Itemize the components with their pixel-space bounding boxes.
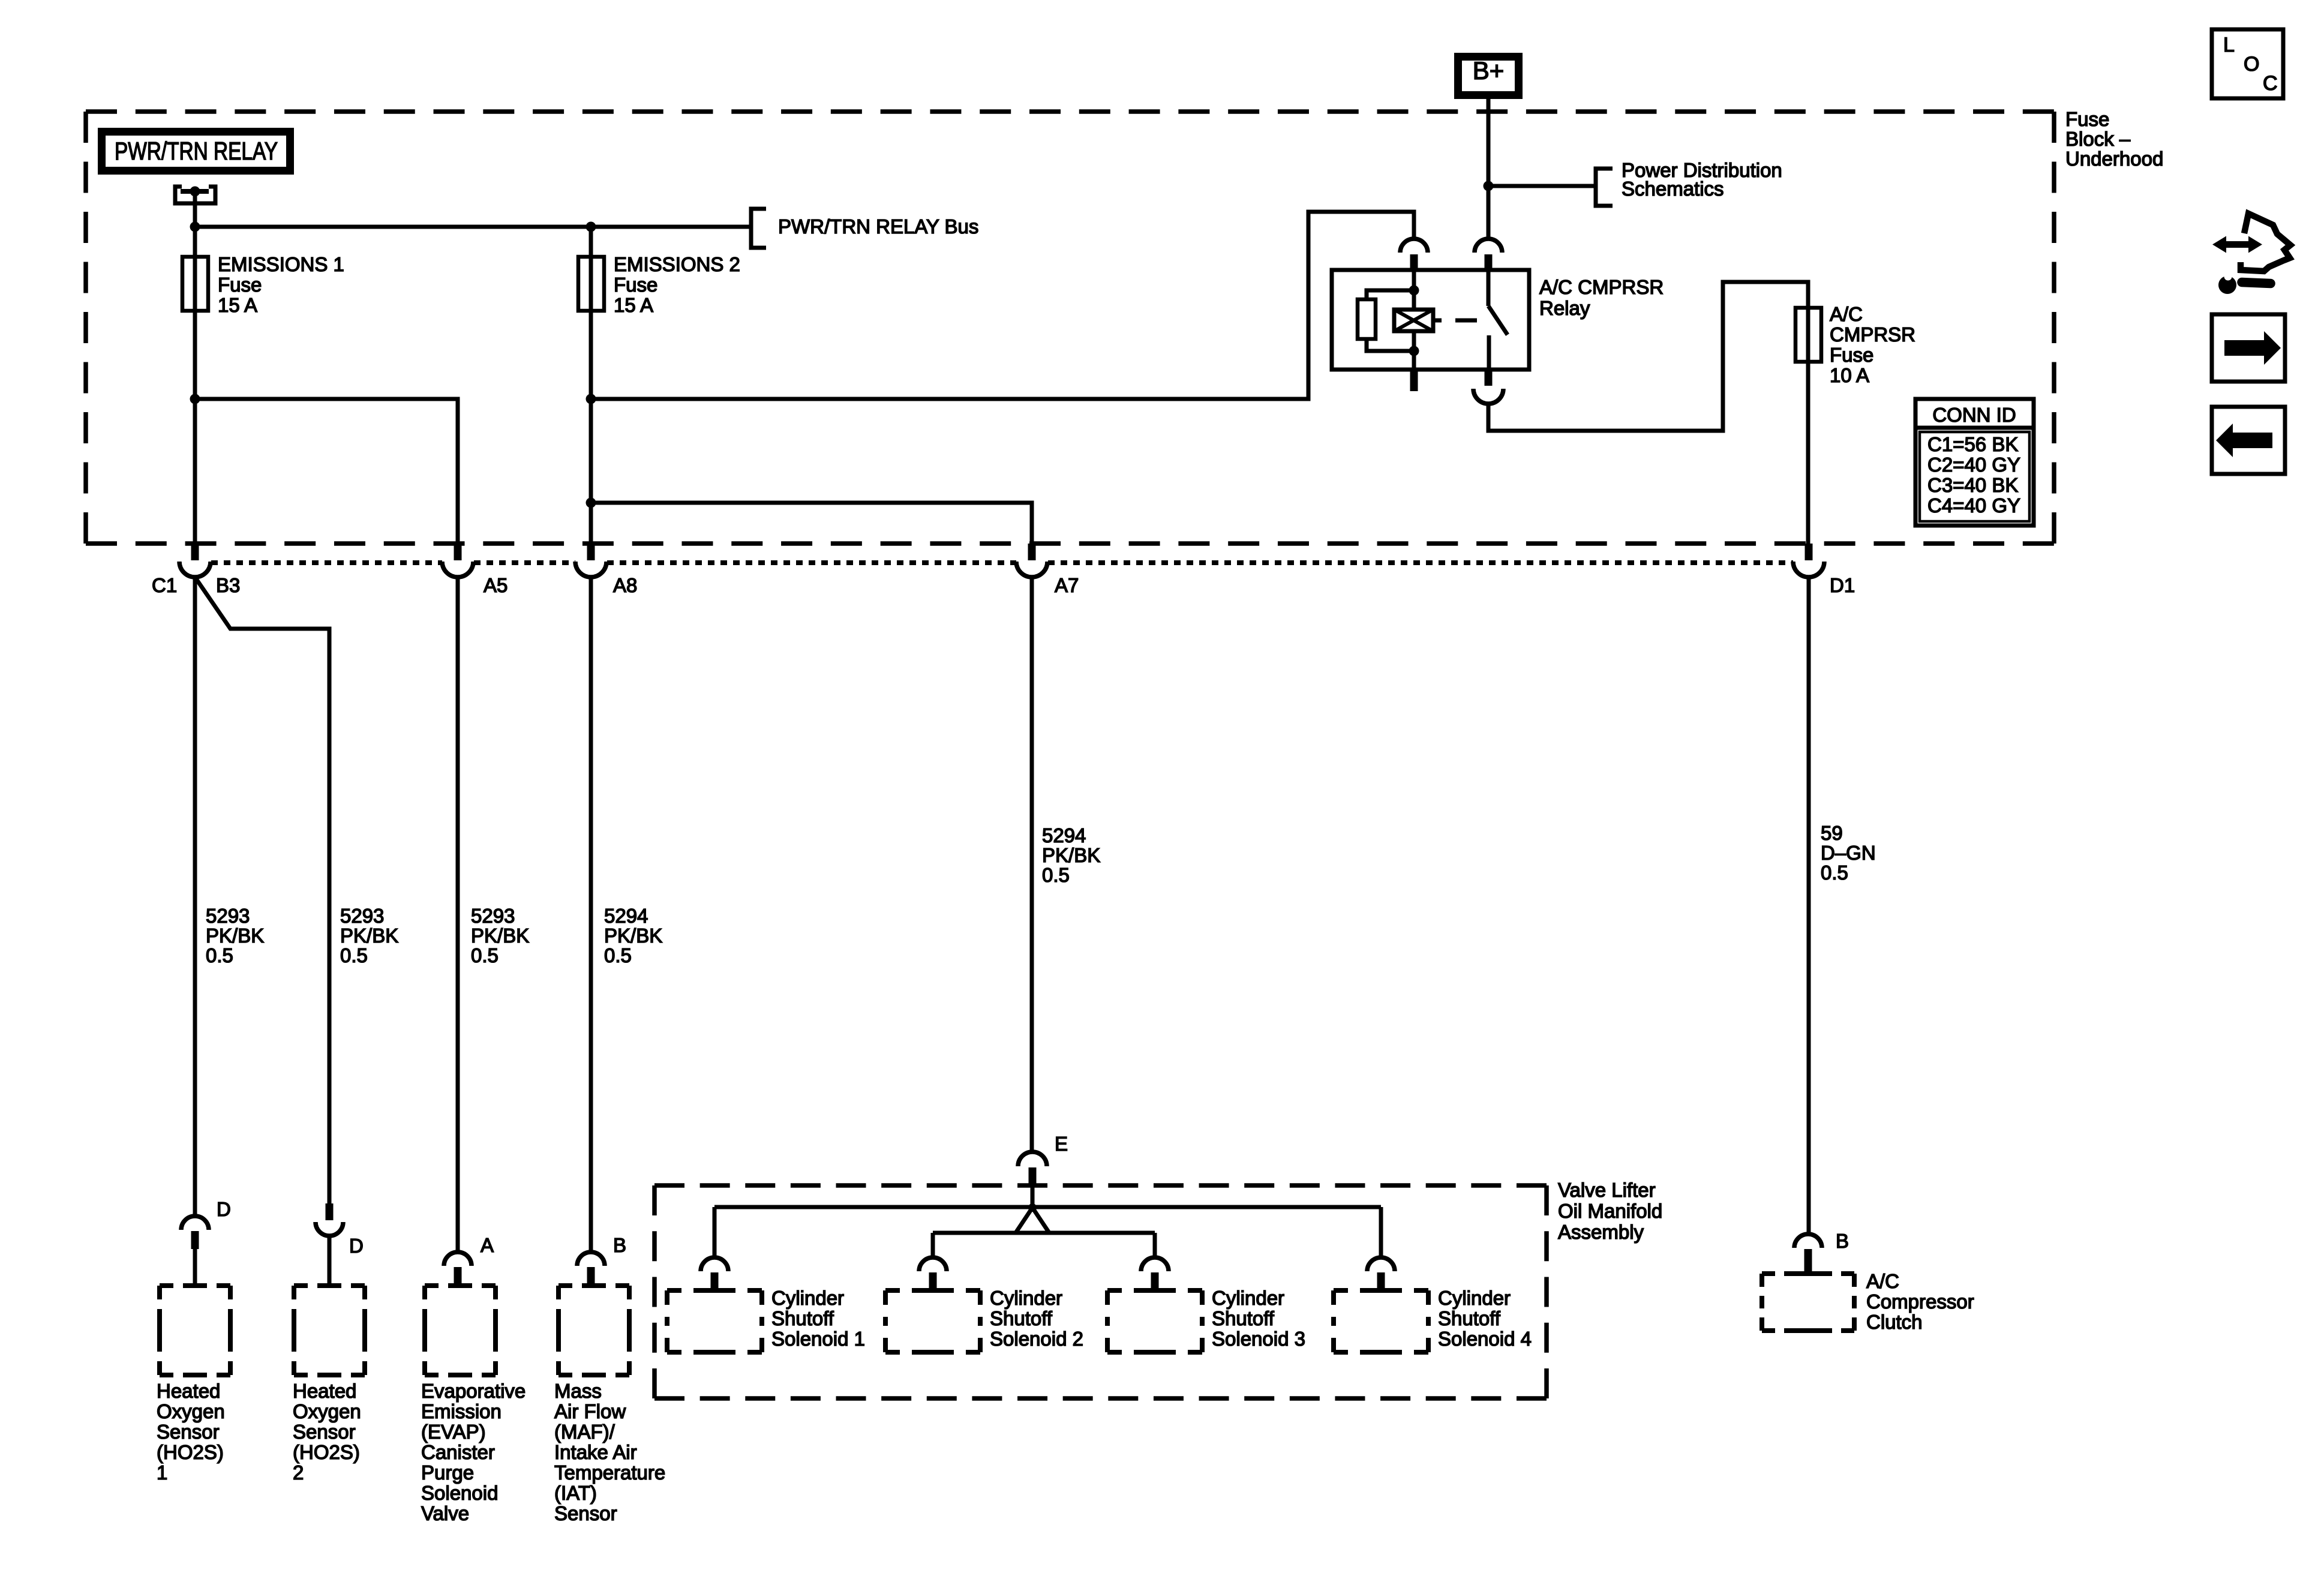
- svg-text:C1: C1: [152, 574, 177, 596]
- relay coil element: [1394, 310, 1433, 331]
- relay coil wire: [1412, 270, 1416, 310]
- node: bus junction at EMISSIONS 2: [586, 222, 596, 232]
- svg-text:Shutoff: Shutoff: [990, 1307, 1053, 1329]
- svg-text:D: D: [217, 1198, 231, 1220]
- back navigation arrow box: [2212, 407, 2285, 474]
- connector at solenoid 1: [701, 1257, 728, 1271]
- node: solenoid feed split: [1028, 1203, 1037, 1212]
- component box: Heated Oxygen Sensor 2: [294, 1283, 365, 1288]
- component box: Cylinder Shutoff Solenoid 4: [1334, 1288, 1428, 1293]
- svg-text:PK/BK: PK/BK: [604, 924, 662, 947]
- relay suppression resistor: [1367, 290, 1414, 299]
- wire: A/C fuse to connector D1: [1806, 362, 1810, 545]
- svg-text:Sensor: Sensor: [293, 1421, 356, 1443]
- svg-text:EMISSIONS 1: EMISSIONS 1: [218, 253, 344, 275]
- connector socket A7: [1016, 562, 1047, 577]
- connector pin D1: [1805, 544, 1813, 560]
- svg-text:PWR/TRN RELAY Bus: PWR/TRN RELAY Bus: [778, 215, 978, 238]
- svg-text:Air Flow: Air Flow: [554, 1400, 626, 1422]
- PWR/TRN RELAY label box: [98, 128, 294, 175]
- svg-text:Clutch: Clutch: [1866, 1311, 1923, 1333]
- connector pin A7: [1028, 544, 1036, 560]
- svg-text:D: D: [349, 1235, 364, 1257]
- svg-text:15 A: 15 A: [218, 294, 257, 316]
- svg-text:C: C: [2263, 72, 2278, 95]
- svg-text:Emission: Emission: [421, 1400, 502, 1422]
- CONN ID table: [1915, 399, 2034, 526]
- connector socket A5: [442, 562, 473, 577]
- svg-text:A8: A8: [613, 574, 637, 596]
- relay switch: [1487, 270, 1491, 306]
- relay coil unused pin stub: [1410, 370, 1418, 391]
- svg-text:Purge: Purge: [421, 1461, 474, 1484]
- svg-text:Shutoff: Shutoff: [1438, 1307, 1501, 1329]
- svg-text:0.5: 0.5: [604, 944, 632, 966]
- svg-text:Canister: Canister: [421, 1441, 495, 1463]
- wire: EMISSIONS 2 to A/C CMPRSR relay coil: [591, 212, 1414, 399]
- node: coil top: [1409, 286, 1419, 296]
- svg-text:C2=40 GY: C2=40 GY: [1927, 454, 2020, 476]
- connector: relay switch terminal: [1475, 239, 1502, 253]
- svg-text:CMPRSR: CMPRSR: [1830, 323, 1915, 346]
- bracket: bus reference: [751, 209, 766, 248]
- svg-text:A/C CMPRSR: A/C CMPRSR: [1539, 276, 1664, 298]
- component box: Cylinder Shutoff Solenoid 3: [1107, 1288, 1202, 1293]
- svg-text:Cylinder: Cylinder: [1438, 1287, 1511, 1309]
- wire: split to solenoids 2 and 3: [1016, 1208, 1032, 1233]
- svg-text:C1=56 BK: C1=56 BK: [1927, 433, 2018, 455]
- B+ power feed box: [1454, 53, 1523, 99]
- svg-text:PK/BK: PK/BK: [471, 924, 529, 947]
- svg-text:(HO2S): (HO2S): [293, 1441, 360, 1463]
- svg-text:1: 1: [157, 1461, 167, 1484]
- component box: Cylinder Shutoff Solenoid 1: [667, 1288, 762, 1293]
- wire: B3 to HO2S 2 (5293 PK/BK): [195, 577, 329, 1203]
- connector D at HO2S 1: [181, 1216, 209, 1230]
- svg-text:Intake Air: Intake Air: [554, 1441, 637, 1463]
- svg-text:Shutoff: Shutoff: [771, 1307, 834, 1329]
- svg-text:B+: B+: [1473, 56, 1505, 85]
- connector at solenoid 3: [1141, 1257, 1169, 1271]
- svg-text:Underhood: Underhood: [2065, 148, 2163, 170]
- svg-text:Mass: Mass: [554, 1380, 602, 1402]
- bracket: power distribution reference: [1596, 169, 1613, 206]
- svg-text:Solenoid 4: Solenoid 4: [1438, 1328, 1532, 1350]
- component box: MAF/IAT sensor: [559, 1283, 629, 1288]
- svg-text:PK/BK: PK/BK: [206, 924, 264, 947]
- node: bus junction at EMISSIONS 1: [190, 222, 200, 232]
- connector at solenoid 2: [919, 1257, 947, 1271]
- wire: D1 to compressor clutch (59 D-GN): [1807, 577, 1811, 1234]
- wire: bus to EMISSIONS 2 fuse: [589, 227, 593, 257]
- svg-text:(MAF)/: (MAF)/: [554, 1421, 615, 1443]
- svg-text:Solenoid 3: Solenoid 3: [1212, 1328, 1305, 1350]
- connector socket D1: [1793, 562, 1824, 577]
- fuse A/C CMPRSR 10A: [1795, 308, 1821, 362]
- svg-text:PWR/TRN RELAY: PWR/TRN RELAY: [115, 137, 278, 165]
- relay coil-switch link: [1433, 319, 1442, 323]
- svg-text:Cylinder: Cylinder: [1212, 1287, 1284, 1309]
- fuse EMISSIONS 2 15A: [578, 257, 604, 311]
- svg-text:Cylinder: Cylinder: [771, 1287, 844, 1309]
- svg-text:B: B: [1836, 1230, 1849, 1252]
- svg-text:Schematics: Schematics: [1622, 178, 1724, 200]
- svg-text:B: B: [613, 1234, 626, 1256]
- connector D at HO2S 2: [326, 1203, 334, 1220]
- svg-text:B3: B3: [216, 574, 240, 596]
- connector: relay coil terminal: [1400, 239, 1428, 253]
- svg-text:Solenoid: Solenoid: [421, 1482, 498, 1504]
- svg-text:CONN ID: CONN ID: [1932, 404, 2016, 426]
- wire: manifold bus to solenoids 1 and 4: [714, 1205, 1381, 1209]
- svg-text:Solenoid 2: Solenoid 2: [990, 1328, 1083, 1350]
- svg-text:L: L: [2223, 34, 2235, 56]
- svg-text:PK/BK: PK/BK: [340, 924, 398, 947]
- svg-text:0.5: 0.5: [340, 944, 368, 966]
- svg-text:Valve: Valve: [421, 1502, 469, 1524]
- svg-text:Fuse: Fuse: [614, 274, 657, 296]
- svg-text:Fuse: Fuse: [2065, 108, 2109, 130]
- connector interface dotted line: [211, 560, 442, 565]
- svg-text:59: 59: [1821, 822, 1843, 844]
- svg-text:2: 2: [293, 1461, 304, 1484]
- svg-text:Sensor: Sensor: [554, 1502, 617, 1524]
- svg-text:(HO2S): (HO2S): [157, 1441, 224, 1463]
- svg-text:5293: 5293: [206, 905, 250, 927]
- svg-text:Cylinder: Cylinder: [990, 1287, 1062, 1309]
- wire: E into manifold: [1031, 1186, 1035, 1207]
- PWR/TRN relay output symbol: [175, 187, 215, 203]
- svg-text:0.5: 0.5: [1821, 861, 1848, 884]
- wire: A8 to MAF/IAT (5294 PK/BK): [589, 577, 593, 1252]
- wire: feed to solenoid 2: [931, 1233, 935, 1257]
- connector at solenoid 4: [1367, 1257, 1395, 1271]
- svg-text:Block –: Block –: [2065, 128, 2131, 150]
- svg-text:E: E: [1055, 1133, 1068, 1155]
- node: power distribution tap: [1484, 181, 1494, 191]
- fuse block underhood dashed boundary: [86, 109, 2054, 114]
- svg-text:EMISSIONS 2: EMISSIONS 2: [614, 253, 740, 275]
- svg-text:Relay: Relay: [1539, 297, 1590, 319]
- svg-text:(IAT): (IAT): [554, 1482, 597, 1504]
- svg-text:Shutoff: Shutoff: [1212, 1307, 1275, 1329]
- connector B at compressor clutch: [1794, 1234, 1822, 1248]
- svg-text:O: O: [2244, 53, 2259, 76]
- node: EMISSIONS 2 junction to A7: [586, 498, 596, 508]
- svg-text:Fuse: Fuse: [218, 274, 262, 296]
- forward navigation arrow box: [2212, 314, 2285, 382]
- node: relay output tap: [190, 187, 200, 197]
- svg-text:Oil Manifold: Oil Manifold: [1558, 1200, 1662, 1222]
- wire: feed to solenoid 4: [1379, 1207, 1383, 1257]
- connector A at EVAP: [444, 1252, 472, 1266]
- wire: PWR/TRN RELAY bus: [195, 225, 751, 229]
- connector pin A8: [587, 544, 595, 560]
- svg-text:Compressor: Compressor: [1866, 1290, 1974, 1313]
- svg-text:0.5: 0.5: [471, 944, 499, 966]
- component box: Heated Oxygen Sensor 1: [160, 1283, 230, 1288]
- wire: A5 to EVAP valve (5293 PK/BK): [456, 577, 460, 1252]
- svg-text:Oxygen: Oxygen: [293, 1400, 361, 1422]
- connector pin A5: [454, 544, 462, 560]
- svg-text:C3=40 BK: C3=40 BK: [1927, 474, 2018, 496]
- wire: tap to power distribution reference: [1488, 184, 1594, 188]
- svg-text:A7: A7: [1055, 574, 1079, 596]
- svg-text:(EVAP): (EVAP): [421, 1421, 486, 1443]
- svg-text:Fuse: Fuse: [1830, 344, 1873, 366]
- svg-text:5294: 5294: [1042, 824, 1086, 846]
- wire: branch to connector A7: [591, 503, 1032, 545]
- svg-text:C4=40 GY: C4=40 GY: [1927, 494, 2020, 517]
- wrench part of icon: [2218, 276, 2236, 294]
- vehicle direction icon: [2221, 241, 2254, 248]
- svg-text:10 A: 10 A: [1830, 364, 1869, 386]
- connector E at manifold: [1018, 1152, 1047, 1166]
- relay box: A/C CMPRSR Relay: [1332, 270, 1529, 370]
- svg-text:A5: A5: [484, 574, 508, 596]
- connector B at MAF/IAT: [577, 1252, 605, 1266]
- wire: relay output to A/C CMPRSR fuse: [1488, 282, 1808, 431]
- svg-text:A/C: A/C: [1830, 303, 1863, 325]
- wire: EMISSIONS 1 fuse to connector C1: [193, 311, 197, 545]
- svg-text:D1: D1: [1830, 574, 1855, 596]
- svg-text:Heated: Heated: [293, 1380, 356, 1402]
- wire: feed to solenoid 1: [713, 1207, 717, 1257]
- fuse EMISSIONS 1 15A: [182, 257, 208, 311]
- wire: branch to connector A5: [195, 399, 458, 545]
- svg-text:15 A: 15 A: [614, 294, 653, 316]
- connector pin C1: [191, 544, 199, 560]
- svg-text:Assembly: Assembly: [1558, 1221, 1644, 1243]
- svg-text:PK/BK: PK/BK: [1042, 844, 1100, 866]
- wire: relay output down to bus: [193, 191, 197, 227]
- wire: connector to HO2S 2: [328, 1236, 332, 1284]
- svg-text:Temperature: Temperature: [554, 1461, 665, 1484]
- wire: bus to EMISSIONS 1 fuse: [193, 227, 197, 257]
- connector socket A8: [575, 562, 606, 577]
- wire: C1 to HO2S 1 (5293 PK/BK): [193, 577, 197, 1216]
- node: coil bottom: [1409, 346, 1419, 356]
- svg-text:A/C: A/C: [1866, 1270, 1899, 1292]
- component box: Cylinder Shutoff Solenoid 2: [885, 1288, 980, 1293]
- svg-text:5294: 5294: [604, 905, 648, 927]
- connector socket C1: [179, 562, 211, 577]
- svg-text:0.5: 0.5: [206, 944, 233, 966]
- svg-text:5293: 5293: [340, 905, 384, 927]
- wire: A7 to oil manifold (5294 PK/BK): [1030, 577, 1034, 1152]
- wire: connector to HO2S 1: [193, 1249, 197, 1284]
- wire: EMISSIONS 2 fuse to connector A8: [589, 311, 593, 545]
- connector: relay switch output: [1485, 370, 1493, 386]
- svg-text:Valve Lifter: Valve Lifter: [1558, 1179, 1656, 1201]
- LOC reference box: [2212, 29, 2283, 98]
- svg-text:D–GN: D–GN: [1821, 842, 1876, 864]
- svg-text:Oxygen: Oxygen: [157, 1400, 225, 1422]
- svg-text:Heated: Heated: [157, 1380, 220, 1402]
- svg-text:Sensor: Sensor: [157, 1421, 220, 1443]
- svg-text:5293: 5293: [471, 905, 515, 927]
- node: EMISSIONS 1 branch junction: [190, 394, 200, 404]
- component box: A/C Compressor Clutch: [1762, 1271, 1854, 1276]
- wire: feed to solenoid 3: [1153, 1233, 1157, 1257]
- component box: EVAP canister purge solenoid valve: [425, 1283, 496, 1288]
- svg-text:Evaporative: Evaporative: [421, 1380, 526, 1402]
- svg-text:A: A: [481, 1234, 494, 1256]
- svg-text:0.5: 0.5: [1042, 864, 1070, 886]
- svg-text:Solenoid 1: Solenoid 1: [771, 1328, 865, 1350]
- component box: Valve Lifter Oil Manifold Assembly: [654, 1183, 1547, 1188]
- node: EMISSIONS 2 junction to relay coil: [586, 394, 596, 404]
- wire: B+ down to relay switch: [1487, 99, 1491, 239]
